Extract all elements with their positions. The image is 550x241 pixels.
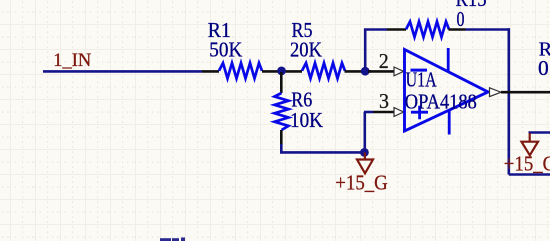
pin lead R6 pin2 vertical bbox=[280, 130, 283, 145]
wire noninverting vertical down bbox=[363, 112, 366, 152]
svg-text:+15_G: +15_G bbox=[504, 151, 550, 175]
svg-text:0: 0 bbox=[457, 7, 465, 31]
svg-text:2: 2 bbox=[379, 49, 389, 73]
pin lead R15 pin2 bbox=[449, 28, 466, 31]
op-amp U1A triangle bbox=[405, 50, 489, 132]
junction node R1/R5/R6 bbox=[277, 67, 286, 76]
junction node inverting input bbox=[361, 67, 370, 76]
svg-text:50K: 50K bbox=[209, 38, 242, 62]
pin lead R1 pin2 bbox=[262, 70, 282, 73]
wire feedback vertical right down to output and beyond bbox=[507, 28, 510, 174]
svg-text:3: 3 bbox=[379, 89, 389, 113]
op-amp V+ power stub bbox=[447, 48, 450, 73]
pin 3 line bbox=[373, 111, 394, 114]
pin 2 line bbox=[368, 70, 394, 73]
pin 3 arrow bbox=[394, 108, 404, 117]
wire R6 bottom corner vertical bbox=[280, 144, 283, 154]
svg-text:1_IN: 1_IN bbox=[53, 50, 91, 71]
resistor R15 body bbox=[406, 22, 449, 37]
pin lead R5 pin1 bbox=[282, 70, 303, 73]
svg-text:+15_G: +15_G bbox=[335, 171, 388, 195]
pin lead R1 pin1 bbox=[202, 70, 219, 73]
op-amp minus input sign bbox=[411, 69, 428, 72]
pin 1 output arrow bbox=[490, 88, 502, 97]
power port +15_G arrow bbox=[357, 152, 373, 173]
power port -15_G arrow bbox=[522, 133, 539, 155]
op-amp V- power stub bbox=[448, 111, 451, 135]
pin 1 output line bbox=[501, 91, 550, 94]
svg-text:10K: 10K bbox=[290, 108, 323, 132]
wire bottom right horizontal bbox=[509, 173, 550, 176]
resistor R6 body bbox=[275, 93, 289, 130]
op-amp plus input sign bbox=[411, 106, 428, 120]
wire feedback top left horizontal bbox=[364, 28, 387, 31]
wire R5 to inverting input node bbox=[361, 70, 371, 73]
wire feedback vertical left bbox=[364, 30, 367, 72]
wire input net 1_IN horizontal bbox=[43, 70, 202, 73]
svg-text:OPA4188: OPA4188 bbox=[405, 89, 477, 113]
wire bottom horizontal R6 to power node bbox=[280, 151, 365, 154]
wire V- supply horizontal bbox=[529, 131, 550, 134]
pin lead R15 pin1 bbox=[387, 28, 406, 31]
junction node power port bbox=[360, 148, 369, 157]
resistor R5 body bbox=[302, 63, 345, 78]
resistor R1 body bbox=[219, 63, 262, 78]
wire feedback top right horizontal bbox=[466, 28, 511, 31]
svg-text:0: 0 bbox=[538, 56, 549, 80]
test point label TP1 (clipped at bottom edge) bbox=[160, 238, 185, 241]
svg-text:U1A: U1A bbox=[406, 68, 438, 92]
pin lead R5 pin2 bbox=[345, 70, 362, 73]
wire noninverting input horizontal bbox=[364, 111, 373, 114]
svg-text:20K: 20K bbox=[290, 38, 322, 62]
pin lead R6 pin1 vertical bbox=[280, 72, 283, 93]
pin 2 arrow bbox=[394, 67, 404, 76]
